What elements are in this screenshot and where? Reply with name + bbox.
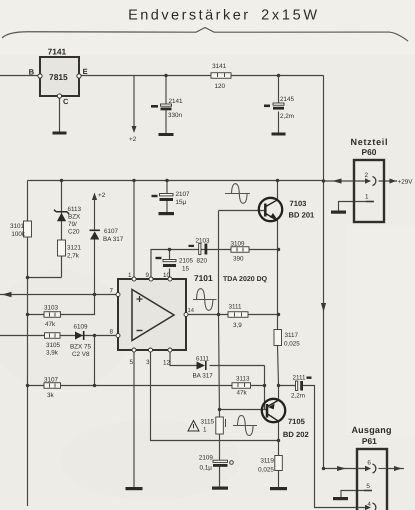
svg-text:3121: 3121 bbox=[67, 244, 82, 251]
IC 7101 box bbox=[118, 279, 186, 350]
svg-text:2: 2 bbox=[365, 172, 369, 179]
svg-text:2107: 2107 bbox=[176, 191, 191, 198]
svg-text:0,1µ: 0,1µ bbox=[200, 464, 213, 471]
wire +29V rail vertical bbox=[323, 76, 325, 469]
resistor 3105 bbox=[45, 333, 61, 339]
svg-text:390: 390 bbox=[233, 256, 244, 263]
arrow down on rail bbox=[321, 303, 326, 312]
arrow input left edge bbox=[2, 292, 12, 297]
transistor 7105 bbox=[262, 399, 285, 422]
ground (P60 pin1) bbox=[331, 211, 346, 214]
op-amp triangle bbox=[132, 290, 174, 341]
wire regulator E to top-right corner bbox=[79, 75, 324, 77]
svg-text:1: 1 bbox=[203, 426, 207, 433]
voltage regulator 7141 box bbox=[40, 57, 79, 96]
svg-text:Ausgang: Ausgang bbox=[351, 425, 391, 435]
wire left edge to regulator B bbox=[0, 75, 40, 77]
wire 2141 drop bbox=[165, 76, 167, 134]
svg-text:+2: +2 bbox=[98, 192, 106, 199]
wire pin5 to ground bbox=[133, 350, 135, 487]
svg-text:3117: 3117 bbox=[284, 332, 298, 339]
svg-text:2109: 2109 bbox=[199, 454, 214, 461]
wire 7103 collector bbox=[277, 181, 279, 201]
svg-text:7103: 7103 bbox=[290, 199, 307, 208]
resistor 3111 bbox=[228, 312, 248, 318]
svg-text:12: 12 bbox=[163, 359, 171, 366]
wire pin12 to 6111 bbox=[170, 350, 265, 366]
sine probe (7103) bbox=[225, 184, 250, 204]
svg-text:3109: 3109 bbox=[231, 241, 246, 248]
resistor 3109 bbox=[231, 247, 249, 253]
svg-text:C20: C20 bbox=[68, 228, 80, 235]
svg-text:15: 15 bbox=[182, 265, 190, 272]
wire 7105 emitter riser bbox=[278, 386, 280, 401]
svg-text:15µ: 15µ bbox=[176, 199, 187, 206]
wire +2 drop from top wire bbox=[133, 76, 135, 128]
transistor 7103 bbox=[259, 198, 282, 221]
svg-text:2,2m: 2,2m bbox=[291, 393, 305, 400]
svg-text:14: 14 bbox=[187, 308, 194, 314]
wire 7105 collector drop bbox=[278, 422, 280, 488]
svg-text:2145: 2145 bbox=[280, 96, 295, 103]
svg-text:3111: 3111 bbox=[228, 304, 242, 311]
svg-text:3141: 3141 bbox=[212, 63, 227, 70]
svg-text:5: 5 bbox=[129, 359, 133, 366]
svg-text:7101: 7101 bbox=[194, 273, 213, 283]
IC pin circles bbox=[116, 277, 188, 352]
svg-text:C: C bbox=[63, 97, 69, 106]
resistor 3117 bbox=[274, 330, 282, 346]
svg-text:BZX 75: BZX 75 bbox=[70, 343, 92, 350]
ground (2109) bbox=[212, 487, 228, 490]
wire 7103 base bbox=[219, 210, 265, 212]
wire main +29V horizontal y180 bbox=[28, 180, 324, 182]
P61 pin4 connector symbol bbox=[357, 503, 376, 510]
svg-text:+2: +2 bbox=[129, 136, 137, 143]
warning triangle 3115 bbox=[188, 421, 199, 432]
svg-text:B: B bbox=[29, 67, 35, 76]
capacitor 2103 bbox=[189, 244, 208, 255]
wire pin8 node down to 3107 wire bbox=[94, 336, 96, 386]
P61 pin5 stub bbox=[364, 490, 372, 492]
svg-text:120: 120 bbox=[215, 83, 226, 90]
svg-text:7105: 7105 bbox=[288, 417, 306, 426]
arrow +2 down bbox=[132, 126, 137, 133]
svg-text:P61: P61 bbox=[362, 436, 377, 446]
wire 7103 emitter chain bbox=[278, 221, 279, 386]
capacitor 2107 bbox=[152, 194, 174, 202]
wire input to pin8 bbox=[0, 335, 118, 337]
wire base bus vertical 219 bbox=[219, 211, 220, 487]
paper shading bbox=[0, 0, 415, 55]
svg-text:5: 5 bbox=[366, 483, 370, 490]
ground (2141) bbox=[159, 133, 174, 136]
sine probe (7105) bbox=[233, 416, 257, 436]
svg-text:3,9k: 3,9k bbox=[46, 349, 59, 356]
wire 6111 branch vertical bbox=[264, 366, 266, 410]
wire P61 pin5 to ground bbox=[341, 491, 364, 498]
svg-text:6107: 6107 bbox=[104, 228, 119, 235]
wire 2145 drop bbox=[278, 76, 280, 133]
svg-text:2,7k: 2,7k bbox=[67, 252, 80, 259]
wire pin9 riser bbox=[151, 250, 279, 280]
P60 pin1 stub bbox=[366, 201, 374, 203]
diode 6107 bbox=[90, 230, 100, 239]
svg-text:7141: 7141 bbox=[48, 46, 67, 56]
svg-text:3103: 3103 bbox=[44, 304, 59, 311]
resistor 3113 bbox=[232, 383, 251, 389]
ground (pin5) bbox=[126, 487, 143, 490]
svg-text:Netzteil: Netzteil bbox=[351, 137, 388, 147]
wire 2107 drop bbox=[166, 181, 168, 213]
svg-text:3105: 3105 bbox=[46, 342, 61, 349]
svg-text:330n: 330n bbox=[168, 112, 183, 119]
svg-text:8: 8 bbox=[109, 328, 113, 335]
svg-text:10: 10 bbox=[163, 272, 171, 279]
svg-text:0,025: 0,025 bbox=[258, 467, 274, 474]
ground (P61 pin5) bbox=[333, 497, 348, 500]
svg-text:6: 6 bbox=[367, 460, 371, 467]
ground (2107) bbox=[159, 212, 175, 215]
svg-text:79/: 79/ bbox=[68, 221, 77, 228]
svg-text:820: 820 bbox=[196, 257, 207, 264]
svg-text:BD 201: BD 201 bbox=[289, 211, 316, 220]
svg-text:47k: 47k bbox=[236, 390, 247, 397]
svg-text:0,025: 0,025 bbox=[284, 341, 300, 348]
svg-text:E: E bbox=[83, 67, 88, 76]
svg-text:BA 317: BA 317 bbox=[192, 372, 213, 379]
capacitor 2105 bbox=[156, 257, 177, 267]
wire 2111 output branch bbox=[279, 386, 367, 508]
connector P60 box bbox=[354, 160, 384, 222]
wire regulator C to ground bbox=[59, 96, 61, 132]
wire P60 pin2 feed bbox=[324, 180, 398, 182]
zener diode 6113 bbox=[54, 210, 69, 222]
capacitor 2145 bbox=[264, 103, 284, 110]
svg-text:3101: 3101 bbox=[10, 223, 25, 230]
ground (regulator) bbox=[53, 132, 67, 135]
P60 pin2 connector symbol bbox=[354, 177, 376, 186]
wire pin14 output bbox=[186, 314, 279, 316]
svg-text:TDA 2020 DQ: TDA 2020 DQ bbox=[223, 276, 268, 283]
svg-text:47k: 47k bbox=[45, 321, 56, 328]
svg-text:3115: 3115 bbox=[200, 418, 214, 425]
capacitor 2109 bbox=[213, 460, 233, 467]
svg-text:1: 1 bbox=[365, 194, 369, 201]
arrow to +29V bbox=[390, 178, 397, 183]
ground (3119) bbox=[270, 487, 287, 490]
capacitor 2111 bbox=[296, 377, 312, 391]
label +29V bbox=[404, 180, 406, 182]
wire input to pin7 bbox=[0, 294, 118, 296]
svg-text:2141: 2141 bbox=[169, 98, 184, 105]
svg-text:6113: 6113 bbox=[68, 206, 82, 213]
svg-text:6111: 6111 bbox=[196, 355, 210, 362]
svg-text:2111: 2111 bbox=[292, 375, 306, 382]
svg-text:3,9: 3,9 bbox=[233, 322, 242, 329]
connector P61 box bbox=[357, 449, 387, 510]
svg-text:100k: 100k bbox=[11, 231, 26, 238]
svg-text:3: 3 bbox=[146, 359, 150, 366]
diode 6109 bbox=[75, 331, 84, 340]
wire zener chain vertical bbox=[28, 181, 62, 278]
wire P61 pin6 feed bbox=[324, 468, 405, 470]
wire pin10 riser 2105 bbox=[169, 250, 171, 280]
svg-text:3k: 3k bbox=[47, 392, 55, 399]
arrow on pin6 feed bbox=[337, 466, 346, 471]
svg-text:2105: 2105 bbox=[179, 257, 194, 264]
svg-text:6109: 6109 bbox=[73, 323, 88, 330]
svg-text:2103: 2103 bbox=[196, 237, 211, 244]
resistor 3119 bbox=[275, 456, 283, 471]
wire left input rail vertical bbox=[27, 181, 29, 507]
svg-text:2,2m: 2,2m bbox=[280, 113, 294, 120]
arrow into rail (P60 pin2) bbox=[333, 178, 342, 183]
svg-text:BA 317: BA 317 bbox=[103, 236, 124, 243]
wire 3107/3113 to 7105 base node bbox=[28, 385, 265, 387]
capacitor 2141 bbox=[151, 104, 172, 110]
P61 pin6 connector symbol bbox=[357, 464, 387, 473]
svg-text:1: 1 bbox=[128, 272, 132, 279]
wire 6107 branch vertical bbox=[94, 199, 96, 295]
wire pin1 riser bbox=[133, 181, 135, 280]
svg-text:3113: 3113 bbox=[236, 376, 250, 383]
brace bbox=[2, 27, 408, 41]
resistor 3107 bbox=[44, 383, 61, 389]
svg-text:9: 9 bbox=[145, 272, 149, 279]
wire 7105 base bbox=[220, 409, 267, 411]
svg-text:3119: 3119 bbox=[260, 458, 274, 465]
wire pin3 to output node bbox=[151, 350, 279, 441]
ground (2145) bbox=[272, 133, 286, 136]
diode 6111 bbox=[197, 361, 206, 370]
resistor 3141 bbox=[211, 73, 231, 79]
svg-text:3107: 3107 bbox=[44, 376, 59, 383]
svg-text:7: 7 bbox=[109, 287, 113, 294]
arrow +2 up bbox=[92, 193, 97, 201]
svg-text:BZX: BZX bbox=[68, 213, 81, 220]
svg-text:C2 V8: C2 V8 bbox=[72, 351, 90, 358]
svg-text:4: 4 bbox=[367, 501, 371, 508]
svg-text:BD 202: BD 202 bbox=[283, 430, 309, 439]
resistor 3103 bbox=[44, 312, 61, 318]
svg-text:Endverstärker: Endverstärker bbox=[128, 7, 249, 23]
resistor 3121 bbox=[58, 240, 66, 256]
resistor 3101 bbox=[24, 221, 32, 237]
svg-text:+29V: +29V bbox=[398, 179, 414, 186]
svg-text:2x15W: 2x15W bbox=[261, 8, 318, 24]
wire P60 pin1 to ground bbox=[339, 202, 367, 211]
sine probe (pin14) bbox=[193, 289, 217, 311]
resistor 3115 bbox=[216, 417, 226, 434]
wire 3103 branch bbox=[28, 295, 95, 315]
arrow pin6 out bbox=[394, 466, 402, 471]
svg-text:7815: 7815 bbox=[49, 72, 68, 82]
svg-text:P60: P60 bbox=[362, 147, 377, 157]
